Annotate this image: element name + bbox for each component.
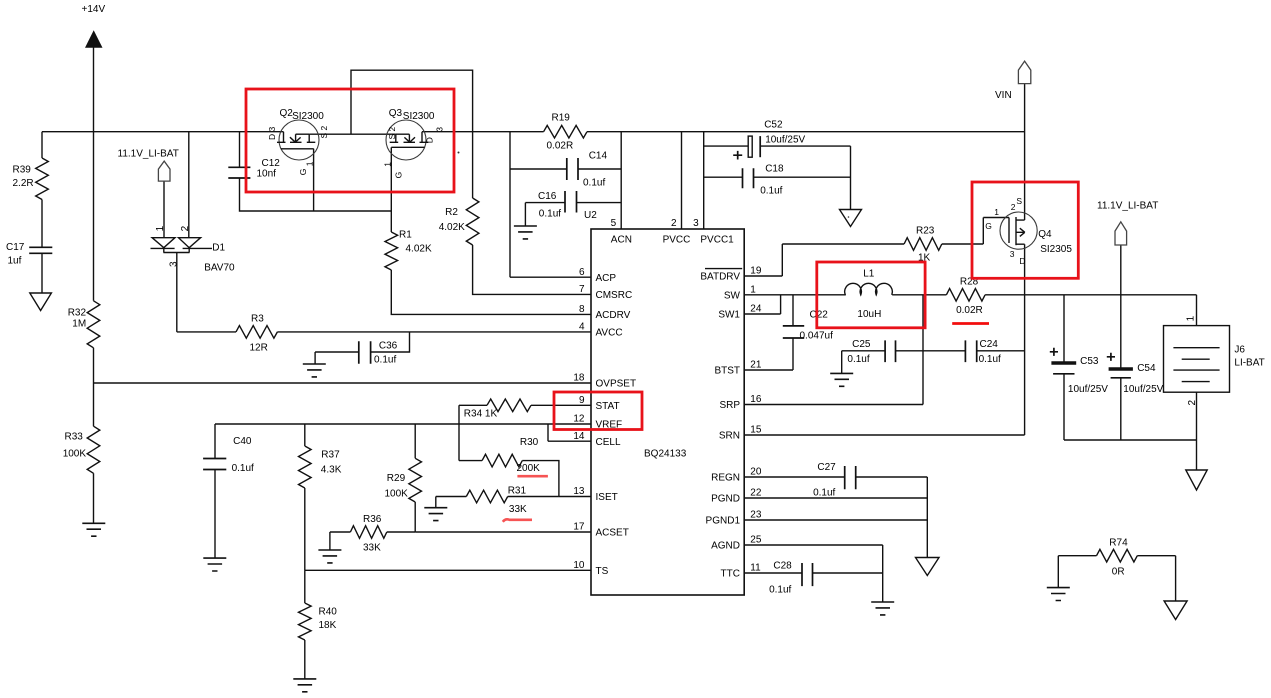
svg-text:18K: 18K [319, 620, 337, 631]
ground (hatched) for C25 [830, 373, 853, 386]
svg-text:10nf: 10nf [257, 169, 277, 180]
svg-text:2: 2 [180, 225, 191, 231]
svg-text:0.1uf: 0.1uf [760, 186, 782, 197]
ground (hatched) for R36 [318, 550, 341, 563]
wire C54 bottom lead [1120, 378, 1122, 440]
svg-text:C22: C22 [810, 310, 829, 321]
svg-text:C54: C54 [1137, 363, 1156, 374]
svg-text:SI2300: SI2300 [292, 111, 324, 122]
wire R36 right lead to R29 bottom node [387, 531, 415, 533]
wire BTST pin 21 [744, 369, 793, 371]
resistor R34 [487, 399, 531, 412]
svg-text:ACN: ACN [611, 235, 632, 246]
svg-text:C14: C14 [589, 151, 608, 162]
wire AVCC net left of R3 [177, 331, 236, 333]
ground (open triangle) for C52/C18 [840, 210, 862, 227]
transistor Q4 contacts [1016, 220, 1025, 244]
svg-text:0.1uf: 0.1uf [979, 354, 1001, 365]
svg-text:CELL: CELL [596, 437, 621, 448]
capacitor C36 [359, 341, 371, 363]
wire rail segment between Q2 source and Q3 source [309, 133, 396, 135]
wire SW node L1 to R28 [892, 294, 946, 296]
wire R40 leads [304, 570, 306, 679]
svg-text:0.02R: 0.02R [547, 141, 574, 152]
wire C24 right lead [977, 350, 1025, 352]
capacitor C52 (polarized) [759, 136, 761, 157]
wire VIN vertical down to Q4 source [1024, 84, 1026, 220]
resistor R3 [236, 326, 277, 339]
wire R30 left lead [459, 460, 482, 462]
transistor Q3 body diode arrow [404, 137, 415, 142]
svg-text:9: 9 [579, 395, 585, 406]
svg-text:4.02K: 4.02K [406, 244, 432, 255]
wire REGN pin 20 to C27 [744, 476, 845, 478]
wire AGND pin 25 dogleg down to C28 node [744, 545, 883, 602]
svg-text:33K: 33K [363, 543, 381, 554]
svg-text:Q3: Q3 [389, 108, 403, 119]
ground (hatched) for C36 [303, 364, 326, 377]
svg-text:10: 10 [573, 560, 585, 571]
red highlight box around Q2/Q3 [246, 89, 454, 192]
svg-text:4: 4 [579, 322, 585, 333]
svg-text:0.02R: 0.02R [956, 305, 983, 316]
op-amp U2 BQ24133 body [591, 229, 744, 595]
plus sign C54 [1107, 353, 1115, 361]
resistor R74 [1097, 549, 1138, 562]
capacitor C18 [743, 168, 754, 188]
svg-text:0.1uf: 0.1uf [374, 355, 396, 366]
ground (open triangle) for R74 right [1164, 601, 1187, 620]
svg-text:15: 15 [750, 425, 762, 436]
wire ACP pin 6 [510, 276, 591, 278]
ground (hatched) below R40 [293, 679, 316, 692]
svg-text:18: 18 [573, 373, 585, 384]
svg-text:BAV70: BAV70 [204, 263, 235, 274]
svg-text:23: 23 [750, 510, 762, 521]
svg-text:C12: C12 [262, 158, 281, 169]
svg-text:C24: C24 [980, 339, 999, 350]
capacitor C17 [29, 247, 52, 253]
svg-text:17: 17 [573, 522, 585, 533]
svg-text:7: 7 [579, 284, 585, 295]
svg-text:R29: R29 [387, 473, 406, 484]
svg-text:S: S [1016, 196, 1022, 206]
red highlight box around STAT/VREF pins [554, 392, 642, 430]
wire C25 right lead [896, 350, 924, 352]
wire SRN pin 15 riser from battery column [744, 434, 1024, 436]
svg-text:AGND: AGND [711, 541, 740, 552]
svg-text:R39: R39 [13, 165, 32, 176]
wire ACN pin 5 vertical [620, 132, 622, 229]
wire VREF net (pin 12) across to C40 [215, 423, 591, 425]
svg-text:REGN: REGN [711, 473, 740, 484]
svg-text:VIN: VIN [995, 90, 1012, 101]
wire R28 right to battery+ rail [985, 294, 1196, 296]
wire ACSET pin 17 [415, 531, 591, 533]
wire battery - rail [1064, 439, 1197, 441]
svg-text:SRN: SRN [719, 431, 740, 442]
svg-text:1M: 1M [72, 319, 86, 330]
wire D1 pin2 riser to rail [188, 132, 190, 238]
wire SW1 pin 24 riser to SW [744, 295, 780, 314]
capacitor C40 [203, 459, 226, 470]
ground (open triangle) PGND column [916, 558, 940, 576]
wire C16 left lead to ground [525, 203, 565, 226]
wire R31 right lead [508, 496, 559, 498]
svg-text:SW: SW [724, 290, 741, 301]
resistor R32 [87, 301, 100, 348]
svg-text:G: G [985, 221, 992, 231]
wire C53 bottom lead [1063, 375, 1065, 441]
resistor R19 [544, 125, 587, 138]
wire C16 right lead to ACN vertical [577, 202, 622, 204]
wire R74 left lead to ground [1058, 556, 1096, 588]
svg-text:1: 1 [1186, 315, 1197, 321]
svg-text:21: 21 [750, 360, 762, 371]
wire ISET pin 13 [559, 496, 591, 498]
svg-text:5: 5 [611, 218, 617, 229]
wire battery + rail C53 branch [1063, 295, 1065, 362]
svg-text:+14V: +14V [82, 4, 106, 15]
ground (hatched) for R74 left [1047, 588, 1070, 601]
wire bypass loop over Q2/Q3 (S node up and over to rail) [351, 70, 473, 134]
wire R37 top lead [304, 424, 306, 446]
svg-text:SI2305: SI2305 [1040, 244, 1072, 255]
svg-text:R74: R74 [1109, 538, 1128, 549]
wire C14 left lead [510, 168, 567, 170]
wire Q3 gate drop joining R1 top [390, 147, 392, 232]
wire +14V rail (AC adapter net, y=131.7) [42, 131, 284, 133]
svg-text:C52: C52 [764, 120, 783, 131]
ground (hatched) for C28/AGND [871, 602, 894, 615]
svg-text:1: 1 [994, 207, 999, 217]
svg-text:ISET: ISET [596, 492, 618, 503]
red highlight box around L1 [817, 262, 925, 328]
inductor L1 [845, 283, 893, 295]
svg-text:C17: C17 [6, 242, 25, 253]
svg-text:10uH: 10uH [857, 309, 881, 320]
wire D1 cathode join [163, 248, 189, 253]
svg-text:R32: R32 [68, 308, 87, 319]
wire +14V vertical through rail down to R32 [93, 48, 95, 301]
svg-text:J6: J6 [1234, 345, 1245, 356]
red underline 33K [503, 519, 532, 521]
wire J6 pin2 drop to ground [1196, 392, 1198, 470]
transistor Q2 drain contact bar [277, 132, 286, 143]
svg-text:12R: 12R [250, 343, 268, 354]
svg-text:TTC: TTC [721, 569, 740, 580]
svg-text:R19: R19 [552, 113, 571, 124]
plus sign C53 [1050, 348, 1058, 356]
svg-text:R37: R37 [321, 450, 340, 461]
wire Q2 gate drop to gate bus [313, 149, 315, 211]
wire R23 to Q4 gate [942, 218, 1009, 245]
transistor Q3 source tie bar [396, 134, 410, 142]
wire AVCC net R3 to AVCC pin 4 [277, 331, 591, 333]
wire C27 right lead to ground column [856, 476, 928, 478]
wire power-ground column PGND/PGND1 [926, 477, 928, 558]
red underline 200K [517, 475, 548, 478]
wire R39 bottom lead to C17 [41, 200, 43, 248]
svg-text:LI-BAT: LI-BAT [1234, 358, 1264, 369]
svg-text:CMSRC: CMSRC [596, 290, 633, 301]
transistor Q2 gate bar [281, 148, 314, 150]
wire R74 right lead to ground [1137, 556, 1175, 601]
svg-text:4.02K: 4.02K [439, 222, 465, 233]
svg-text:ACP: ACP [596, 273, 617, 284]
svg-text:C18: C18 [765, 164, 784, 175]
wire ACP feed vertical from rail [509, 132, 511, 278]
wire R32 bottom lead to OVPSET node [93, 348, 95, 383]
svg-text:R31: R31 [508, 486, 527, 497]
wire R36 left lead to ground [330, 532, 351, 550]
wire R2 top lead from rail [472, 132, 474, 198]
svg-text:22: 22 [750, 488, 762, 499]
svg-text:0.1uf: 0.1uf [539, 209, 561, 220]
svg-text:8: 8 [579, 304, 585, 315]
svg-text:AVCC: AVCC [596, 328, 623, 339]
svg-text:S 2: S 2 [319, 125, 329, 138]
svg-text:0.047uf: 0.047uf [800, 331, 834, 342]
svg-text:ACSET: ACSET [596, 528, 629, 539]
svg-text:1: 1 [305, 161, 315, 166]
capacitor C27 [845, 466, 856, 489]
wire J6 pin1 drop [1196, 295, 1198, 326]
resistor R1 [385, 232, 398, 270]
resistor R33 [87, 426, 100, 473]
wire C52 right lead [760, 145, 850, 147]
svg-text:C40: C40 [233, 436, 252, 447]
svg-text:OVPSET: OVPSET [596, 379, 637, 390]
resistor R39 [36, 158, 49, 200]
capacitor C22 [783, 326, 804, 338]
wire C18 right lead [754, 176, 851, 178]
wire C12 bottom lead and gate bus to Q2/Q3 gates [240, 178, 392, 211]
wire SW pin 1 to L1 [744, 294, 846, 296]
resistor R29 [409, 458, 422, 502]
svg-text:D 3: D 3 [267, 127, 277, 141]
capacitor C28 [802, 563, 813, 586]
svg-text:L1: L1 [863, 269, 875, 280]
svg-text:10uf/25V: 10uf/25V [1068, 384, 1108, 395]
wire R29 body column R37 [304, 488, 306, 570]
ground (hatched) below C40 [203, 558, 226, 571]
svg-text:11.1V_LI-BAT: 11.1V_LI-BAT [118, 149, 179, 160]
overline for BATDRV pin name [705, 268, 742, 270]
wire R29 leads [414, 424, 416, 532]
transistor Q2 body contact pad [290, 141, 302, 143]
svg-text:R2: R2 [445, 207, 458, 218]
svg-text:0.1uf: 0.1uf [813, 488, 835, 499]
wire C52/C18 ground drop [850, 146, 852, 209]
transistor Q3 body contact pad [404, 141, 416, 143]
svg-text:C36: C36 [379, 341, 398, 352]
transistor Q4 channel bar [1015, 217, 1017, 245]
wire 11.1V_LI-BAT right connector drop through + rail to C54 [1120, 245, 1122, 368]
svg-text:1: 1 [382, 162, 392, 167]
svg-text:0.1uf: 0.1uf [847, 354, 869, 365]
svg-text:PGND1: PGND1 [706, 516, 741, 527]
wire Q4 drain down through R28 node C24 to SRN [1024, 244, 1026, 435]
wire C17 bottom lead [41, 253, 43, 293]
svg-text:3: 3 [435, 127, 445, 132]
wire TTC pin 11 to C28 [744, 572, 802, 574]
svg-text:100K: 100K [63, 449, 87, 460]
svg-text:16: 16 [750, 394, 762, 405]
svg-text:R40: R40 [319, 607, 338, 618]
svg-text:2: 2 [671, 218, 677, 229]
plus sign C52 [733, 151, 742, 160]
svg-text:3: 3 [1010, 249, 1015, 259]
transistor Q3 drain contact bar [420, 132, 429, 143]
wire C36 right lead up to AVCC net [371, 332, 410, 352]
wire STAT pin 9 from R34 [531, 404, 591, 406]
transistor Q3 body circle [386, 120, 426, 160]
svg-text:14: 14 [573, 431, 585, 442]
diode D1a (pin1) [151, 238, 176, 249]
svg-text:TS: TS [596, 566, 609, 577]
svg-text:S 2: S 2 [387, 126, 397, 139]
capacitor C14 [567, 158, 578, 180]
svg-text:C27: C27 [817, 462, 836, 473]
transistor Q4 body circle [1000, 212, 1037, 249]
svg-text:13: 13 [573, 486, 585, 497]
svg-text:STAT: STAT [596, 401, 620, 412]
resistor R36 [350, 526, 386, 539]
red underline 0.02R [952, 322, 989, 325]
capacitor C25 [885, 340, 895, 362]
wire C22 bottom lead to BTST [792, 338, 794, 370]
battery connector J6 box [1164, 326, 1230, 393]
transistor Q2 body diode arrow [290, 137, 301, 142]
wire rail R19 to VIN vertical [587, 131, 1025, 133]
svg-text:0.1uf: 0.1uf [583, 178, 605, 189]
svg-text:R3: R3 [251, 314, 264, 325]
wire C12 top lead from rail [239, 132, 241, 168]
svg-text:SW1: SW1 [718, 310, 740, 321]
wire C52 left lead from PVCC1 vertical [704, 145, 748, 147]
svg-text:BQ24133: BQ24133 [644, 449, 687, 460]
svg-text:G: G [394, 172, 404, 179]
svg-text:10uf/25V: 10uf/25V [765, 135, 805, 146]
resistor R37 [299, 446, 312, 488]
wire R34 left lead and riser down to R30 [459, 405, 487, 460]
svg-text:R1: R1 [399, 230, 412, 241]
svg-text:BTST: BTST [714, 366, 740, 377]
wire rail right of Q3 to R19 [422, 131, 544, 133]
svg-text:ACDRV: ACDRV [596, 310, 631, 321]
svg-text:Q4: Q4 [1038, 229, 1052, 240]
wire R1 bottom to ACDRV pin 8 [391, 270, 591, 314]
wire CELL pin 14 dogleg to VREF net [548, 424, 591, 441]
wire BATDRV pin 19 to R23 [744, 244, 904, 276]
red highlight box around Q4 [972, 182, 1078, 278]
wire C24 left lead [923, 350, 965, 352]
svg-text:PGND: PGND [711, 494, 740, 505]
resistor R31 [466, 490, 507, 503]
wire C28 right lead [813, 572, 883, 574]
svg-text:2: 2 [1011, 202, 1016, 212]
transistor Q2 source tie bar [296, 134, 310, 142]
connector symbol 11.1V_LI-BAT left (to D1) [158, 161, 170, 181]
wire SRP pin 16 and riser to L1/R28 node [744, 295, 923, 405]
wire C22 top lead from SW node [792, 295, 794, 326]
svg-text:D1: D1 [212, 243, 225, 254]
transistor Q3 gate bar [391, 146, 424, 148]
wire C18 left lead from PVCC1 vertical [704, 176, 743, 178]
capacitor C16 [565, 191, 577, 213]
svg-text:6: 6 [579, 267, 585, 278]
svg-text:PVCC1: PVCC1 [700, 235, 734, 246]
wire C40 top lead [214, 424, 216, 459]
wire R31 left lead to ground [436, 497, 467, 508]
svg-text:R23: R23 [916, 226, 935, 237]
svg-text:R33: R33 [65, 432, 84, 443]
ground (open triangle) below J6 [1186, 470, 1207, 490]
svg-text:25: 25 [750, 535, 762, 546]
svg-text:BATDRV: BATDRV [700, 272, 740, 283]
svg-text:R34 1K: R34 1K [464, 409, 498, 420]
wire R39 top lead [41, 132, 43, 158]
transistor Q4 channel arrow [1017, 228, 1025, 236]
resistor R30 [482, 454, 522, 467]
capacitor C24 [965, 340, 976, 362]
ground (hatched) below R33 [82, 523, 105, 536]
svg-text:SI2300: SI2300 [403, 111, 435, 122]
wire TS pin 10 [305, 569, 591, 571]
capacitor C54 (polarized) [1109, 367, 1133, 370]
svg-text:0.1uf: 0.1uf [769, 585, 791, 596]
wire C36 left lead to ground [315, 352, 359, 364]
resistor R2 [466, 198, 479, 245]
connector symbol VIN [1018, 61, 1030, 84]
svg-text:U2: U2 [584, 210, 597, 221]
wire D1 pin3 drop to AVCC net [176, 252, 178, 332]
resistor R28 [946, 289, 985, 302]
wire PGND1 pin 23 [744, 519, 927, 521]
svg-text:C53: C53 [1080, 356, 1099, 367]
ground (open triangle) below C17 [30, 293, 52, 311]
svg-text:0R: 0R [1112, 567, 1125, 578]
svg-text:10uf/25V: 10uf/25V [1123, 384, 1163, 395]
svg-text:D: D [1019, 256, 1025, 266]
transistor Q3 source contact pad [390, 141, 399, 143]
svg-text:G: G [298, 169, 308, 176]
svg-text:PVCC: PVCC [663, 235, 691, 246]
transistor Q4 gate plate bar [1008, 218, 1010, 244]
stray dot artifact in C52 ground triangle [848, 216, 850, 218]
svg-text:20: 20 [750, 467, 762, 478]
svg-text:1: 1 [155, 225, 166, 231]
svg-text:200K: 200K [517, 463, 541, 474]
wire D1 pin1 from connector [163, 181, 165, 238]
capacitor C53 (polarized) [1051, 361, 1076, 364]
svg-text:24: 24 [750, 304, 762, 315]
svg-text:C28: C28 [773, 561, 792, 572]
wire PGND pin 22 [744, 497, 927, 499]
svg-text:D: D [425, 137, 435, 143]
transistor Q2 source contact pad [307, 141, 316, 143]
battery J6 cell plates [1173, 348, 1219, 382]
wire R33 leads [93, 383, 95, 523]
resistor R40 [299, 603, 312, 640]
svg-text:33K: 33K [509, 504, 527, 515]
svg-text:C25: C25 [852, 339, 871, 350]
power symbol +14V arrow [85, 30, 103, 48]
svg-text:0.1uf: 0.1uf [232, 463, 254, 474]
svg-text:2.2R: 2.2R [13, 178, 34, 189]
svg-text:1: 1 [750, 285, 756, 296]
